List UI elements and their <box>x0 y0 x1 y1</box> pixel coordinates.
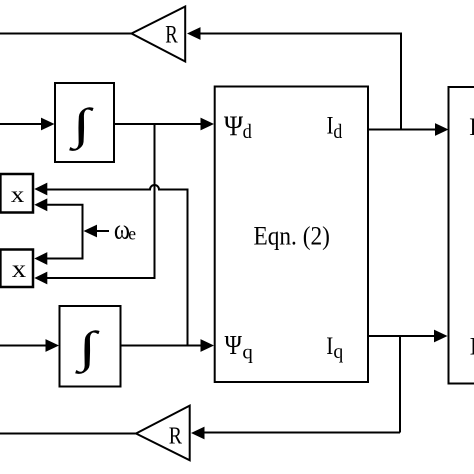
svg-text:q: q <box>242 343 253 364</box>
wire: top output from R amplifier to left edge <box>0 33 132 35</box>
svg-text:I: I <box>326 333 333 360</box>
svg-text:x: x <box>11 182 25 207</box>
wire: bottom output from R2 to left edge <box>0 433 137 435</box>
wire: Psi_q tap vertical from Psi_q line up <box>187 190 189 346</box>
wire: feedback from Id node into R1 <box>198 33 401 35</box>
svg-text:∫: ∫ <box>68 100 94 151</box>
svg-text:d: d <box>333 122 342 143</box>
wire: I_q output to right block <box>368 335 436 337</box>
wire: Psi_d from integrator 1 to Eqn block <box>114 123 202 125</box>
svg-text:I: I <box>470 331 474 360</box>
svg-text:x: x <box>12 256 27 283</box>
wire: I_d output to right block <box>368 129 437 131</box>
svg-text:R: R <box>169 422 183 449</box>
integral sign U1 <box>68 100 94 151</box>
block U3 Eqn. (2) <box>215 87 368 383</box>
integrator U2 <box>60 306 121 387</box>
amplifier R1 (top, pointing left) <box>132 7 186 62</box>
multiplier M2 <box>0 250 33 288</box>
svg-text:d: d <box>243 122 252 143</box>
wire: omega_e bracket to M1 lower input <box>44 205 83 259</box>
svg-text:I: I <box>469 112 474 141</box>
wire: Psi_d tap vertical down to multiplier M2 <box>154 123 156 278</box>
wire: Psi_q line with hop into multiplier M1 upper input <box>44 185 188 191</box>
amplifier R2 (bottom, pointing left) <box>136 406 190 461</box>
svg-text:e: e <box>128 224 136 244</box>
wire: omega_e arrow <box>95 230 109 232</box>
multiplier M1 <box>0 174 33 213</box>
wire: Vd input to integrator 1 <box>0 123 43 125</box>
wire: feedback vertical Id to top <box>400 33 402 130</box>
wire: Psi_d into multiplier M2 lower input <box>44 277 156 279</box>
svg-text:Eqn. (2): Eqn. (2) <box>254 222 330 251</box>
integrator U1 <box>55 83 114 162</box>
integral sign U2 <box>74 323 100 374</box>
wire: I_q feedback vertical down <box>399 336 401 433</box>
wire: Vq input to integrator 2 <box>0 345 47 347</box>
svg-text:q: q <box>333 342 343 363</box>
wire: I_q feedback to R2 <box>204 432 400 434</box>
block U4 (right, clipped) <box>449 87 474 384</box>
svg-text:R: R <box>165 22 178 49</box>
svg-text:∫: ∫ <box>74 323 100 374</box>
wire: Psi_q from integrator 2 to Eqn block <box>121 345 203 347</box>
svg-text:Ψ: Ψ <box>224 112 243 143</box>
svg-text:Ψ: Ψ <box>225 329 243 360</box>
